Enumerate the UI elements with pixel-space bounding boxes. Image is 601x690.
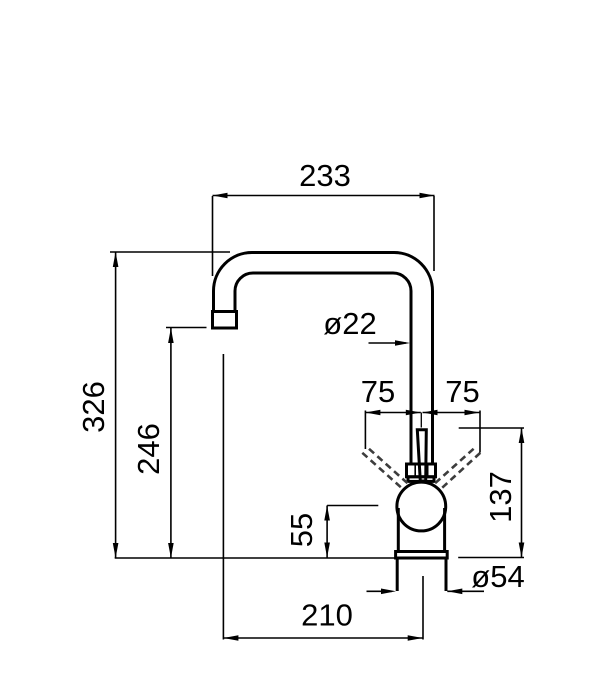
leader arrow diameter 54 left: [367, 590, 393, 592]
svg-text:75: 75: [445, 374, 479, 409]
extension line 137 top: [459, 427, 524, 429]
spout inner contour: [235, 273, 411, 465]
dimension line 137: [521, 428, 523, 558]
body nut lower: [408, 477, 434, 482]
sphere body: [397, 482, 446, 531]
svg-text:246: 246: [131, 423, 166, 475]
dimension line 75 right: [423, 412, 480, 414]
spout outer contour: [214, 253, 433, 465]
extension line 55 top: [327, 505, 378, 507]
extension line 233 left: [212, 196, 214, 276]
extension line 233 right: [433, 196, 435, 271]
extension line 137 bottom: [458, 557, 524, 559]
dimension line 55: [326, 506, 328, 558]
extension line 210 left: [222, 354, 224, 640]
leader arrow diameter 54 right: [447, 590, 484, 592]
body cylinder walls: [398, 508, 444, 552]
dashed lever swung left: [362, 449, 409, 489]
lever handle: [417, 430, 426, 481]
extension line 246 top: [166, 327, 207, 329]
dashed lever swung right: [433, 449, 480, 489]
nut face line left: [414, 464, 416, 477]
centre line 210 right: [422, 576, 424, 640]
dimension line 326: [115, 252, 117, 558]
extension line 75 right: [479, 411, 481, 453]
extension line 75 left: [364, 411, 366, 450]
body nut upper: [407, 464, 436, 477]
leader arrow diameter 22: [369, 342, 407, 344]
svg-text:210: 210: [301, 598, 353, 633]
dimension line 233: [213, 195, 435, 197]
dimension line 75 left: [365, 412, 420, 414]
countertop reference line: [115, 557, 396, 559]
centre tick: [420, 413, 422, 428]
dimension line 246: [170, 328, 172, 558]
extension line 326 top: [110, 251, 230, 253]
svg-text:137: 137: [483, 471, 518, 523]
svg-text:ø22: ø22: [323, 306, 376, 341]
base shank walls: [397, 558, 446, 591]
svg-text:ø54: ø54: [471, 559, 524, 594]
nut face line right: [427, 464, 429, 477]
spout tip nozzle: [213, 312, 237, 329]
mounting flange: [396, 552, 448, 559]
svg-text:233: 233: [299, 158, 351, 193]
dimension line 210: [223, 637, 422, 639]
svg-text:75: 75: [361, 374, 395, 409]
svg-text:55: 55: [284, 513, 319, 547]
svg-text:326: 326: [76, 381, 111, 433]
